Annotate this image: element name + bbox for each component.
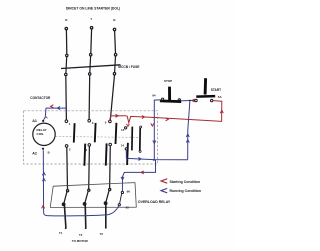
wire motor lead T3: [105, 204, 107, 228]
svg-text:START: START: [211, 88, 221, 92]
wire terminal 6 to overload heater 3: [109, 146, 112, 188]
overload heater element 3: [104, 188, 111, 204]
wire blue branch to overload contact 96: [122, 160, 155, 191]
phase R terminal: [65, 18, 68, 54]
svg-text:COIL: COIL: [37, 132, 45, 136]
arrow red right feed 2: [142, 116, 145, 119]
contactor dashed enclosure: [24, 111, 158, 164]
svg-text:95: 95: [126, 206, 130, 210]
arrow blue up riser 1: [186, 134, 189, 137]
junction node riser crosses red feed: [188, 119, 190, 121]
junction node stop drop crosses red feed: [153, 117, 155, 119]
arrow red down to aux 13: [127, 124, 130, 127]
svg-text:A2: A2: [32, 152, 37, 156]
wire terminal 4 to overload heater 2: [88, 146, 91, 189]
MCCB/fuse switch pole 2 blade: [89, 54, 92, 76]
svg-text:14: 14: [121, 143, 125, 147]
overload relay enclosure: [50, 183, 136, 208]
node stop right contact: [179, 100, 181, 102]
arrow blue up return 1: [42, 173, 45, 176]
wire MCCB pole3 to contactor terminal 5: [110, 75, 114, 120]
arrow blue down on stop drop: [153, 141, 156, 144]
svg-text:T3: T3: [100, 232, 104, 236]
arrow red right feed 1: [115, 114, 118, 117]
svg-text:A: A: [46, 115, 48, 119]
MCCB/fuse switch pole 1 blade: [65, 54, 68, 76]
wire Y dropper: [90, 29, 93, 54]
arrow blue up riser 2: [186, 140, 189, 143]
MCCB/fuse switch pole 3 blade: [113, 54, 117, 75]
arrow red left on overload branch: [141, 171, 144, 174]
arrow red left into junction: [192, 99, 195, 102]
wire MCCB pole2 to contactor terminal 3: [88, 75, 91, 119]
wire B dropper: [114, 31, 117, 54]
svg-text:Starting Condition: Starting Condition: [170, 180, 201, 184]
wire motor lead T1: [64, 205, 66, 228]
svg-text:Y: Y: [90, 17, 92, 21]
svg-text:STOP: STOP: [164, 79, 172, 83]
svg-text:Running Condition: Running Condition: [170, 189, 202, 193]
overload relay NC contact 95-96: [118, 190, 130, 210]
phase Y terminal: [90, 17, 93, 53]
wire terminal 2 to overload heater 1: [66, 147, 69, 189]
wire R dropper: [65, 30, 67, 54]
svg-text:A1: A1: [32, 119, 37, 123]
contactor main contact pole 1-2: [65, 120, 85, 166]
wire blue riser to start junction: [181, 101, 195, 160]
arrow red right feed 3: [166, 118, 169, 121]
MCCB tie bar: [61, 65, 121, 69]
legend arrow starting condition: [161, 179, 167, 183]
svg-text:CONTACTOR: CONTACTOR: [30, 96, 51, 100]
arrow red into coil: [51, 105, 54, 108]
junction node hold wire: [153, 159, 155, 161]
svg-text:MCCB / FUSE: MCCB / FUSE: [118, 65, 140, 69]
svg-text:B: B: [48, 151, 50, 155]
wire blue stop button drop: [154, 100, 161, 160]
svg-text:T2: T2: [79, 233, 83, 237]
svg-text:13: 13: [121, 128, 125, 132]
phase B terminal: [113, 18, 116, 54]
arrow blue down into 96: [121, 177, 124, 180]
svg-text:OVERLOAD RELAY: OVERLOAD RELAY: [138, 200, 171, 204]
wire blue tap phase R to coil A1: [44, 108, 67, 120]
wire blue aux 14 to riser bus: [126, 150, 187, 160]
wire red control feed from terminal 5 to start 5A: [110, 101, 222, 123]
contactor main contact pole 3-4: [85, 119, 106, 165]
arrow red down on stop drop: [151, 123, 154, 126]
legend arrow running condition: [161, 188, 167, 192]
wire blue overload 95 to coil A2 return bus: [43, 150, 119, 216]
relay coil K1: [33, 120, 55, 150]
start button S2 (NO): [195, 78, 221, 102]
mechanical linkage dash line: [55, 136, 140, 139]
svg-text:94: 94: [152, 94, 156, 98]
overload heater element 1: [62, 190, 68, 206]
svg-text:DIRCET ON LINE STARTER (DOL): DIRCET ON LINE STARTER (DOL): [66, 7, 120, 11]
arrow blue left into coil: [57, 107, 60, 110]
wire motor lead T2: [84, 204, 87, 228]
svg-text:T1: T1: [59, 231, 63, 235]
svg-text:96: 96: [127, 190, 131, 194]
arrow red up return: [42, 206, 45, 209]
junction node start-stop: [189, 100, 191, 102]
wire MCCB pole1 to contactor terminal 1: [65, 76, 68, 120]
svg-text:TO MOTOR: TO MOTOR: [72, 239, 89, 243]
arrow red up to start contact: [220, 110, 223, 113]
auxiliary holding contact 13-14: [121, 126, 142, 152]
arrow blue up return 2: [42, 179, 45, 182]
junction node at phase R tap: [65, 107, 67, 109]
arrow blue right on hold wire: [138, 157, 141, 160]
stop button S1 (NC): [160, 79, 181, 102]
contactor main contact pole 5-6: [105, 120, 128, 165]
overload heater element 2: [83, 189, 90, 205]
